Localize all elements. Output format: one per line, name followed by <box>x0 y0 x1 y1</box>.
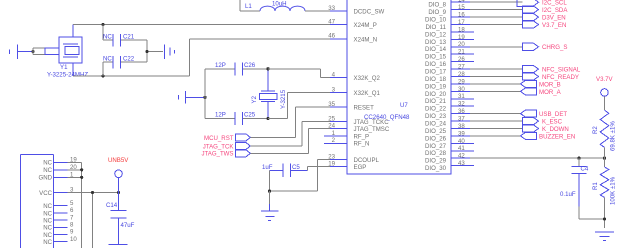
pin 30 DIO_20 <box>425 86 474 98</box>
pin 29 DIO_19 <box>425 78 474 90</box>
svg-text:X32K_Q1: X32K_Q1 <box>354 90 381 97</box>
svg-text:Y2: Y2 <box>251 95 258 103</box>
wire pin 27 to port NFC_SIGNAL <box>470 68 523 70</box>
node junction Y2 top <box>266 67 269 70</box>
svg-text:33: 33 <box>328 5 335 12</box>
svg-text:VCC: VCC <box>39 190 52 197</box>
svg-text:18: 18 <box>458 26 465 33</box>
svg-text:NFC_SIGNAL: NFC_SIGNAL <box>542 67 581 74</box>
svg-text:0.1uF: 0.1uF <box>560 191 576 198</box>
svg-text:RF_N: RF_N <box>354 141 370 148</box>
pin 6 NC (connector) <box>43 207 74 217</box>
svg-text:5: 5 <box>70 200 74 207</box>
connector J1 (bottom-left, partially cut) <box>21 155 54 248</box>
crystal Y2 <box>251 69 287 119</box>
svg-text:46: 46 <box>328 33 335 40</box>
wire pin 28 to port NFC_READY <box>470 76 523 78</box>
svg-text:DIO_12: DIO_12 <box>425 31 447 38</box>
svg-text:JTAG_TCKC: JTAG_TCKC <box>354 119 390 126</box>
pin 4 X32K_Q2 <box>330 71 381 82</box>
port flag MCU_RST <box>204 134 250 142</box>
svg-text:RESET: RESET <box>354 104 375 111</box>
node junction R2/R1 <box>603 157 606 160</box>
svg-text:16: 16 <box>458 12 465 19</box>
svg-text:41: 41 <box>458 145 465 152</box>
pin 42 DIO_29 <box>425 153 474 165</box>
pin 8 NC (connector) <box>43 222 74 232</box>
pin 33 DCDC_SW <box>328 5 384 16</box>
svg-text:DIO_21: DIO_21 <box>425 98 447 105</box>
wire C22 left bus <box>102 62 104 76</box>
svg-text:9: 9 <box>70 229 74 236</box>
svg-text:NC: NC <box>43 210 52 217</box>
svg-text:X24M_P: X24M_P <box>354 22 377 29</box>
svg-text:NC: NC <box>43 203 52 210</box>
wire JTAG_TCK to pin 25 <box>250 122 330 147</box>
svg-text:DIO_25: DIO_25 <box>425 128 447 135</box>
pin 1 RF_P <box>324 130 369 141</box>
svg-text:35: 35 <box>328 101 335 108</box>
port flag USB_DET <box>521 110 568 118</box>
pin 9 NC (connector) <box>43 229 74 239</box>
svg-text:38: 38 <box>458 123 465 130</box>
node junction VCC/bus B <box>91 191 94 194</box>
svg-text:RF_P: RF_P <box>354 133 370 140</box>
node junction R1 bottom / C4 <box>603 217 606 220</box>
port flag K_DOWN <box>523 125 569 133</box>
wire pin 16 to port D3V_EN <box>470 16 523 18</box>
svg-text:DIO_8: DIO_8 <box>428 2 446 9</box>
svg-text:DIO_27: DIO_27 <box>425 143 447 150</box>
svg-text:29: 29 <box>458 78 465 85</box>
power port V3.7V <box>596 76 614 110</box>
pin 41 DIO_28 <box>425 145 474 157</box>
svg-text:21: 21 <box>458 49 465 56</box>
crystal Y1 <box>33 31 88 79</box>
svg-text:6: 6 <box>70 207 74 214</box>
svg-text:Y-3215: Y-3215 <box>280 89 287 109</box>
svg-text:V3.7_EN: V3.7_EN <box>542 22 566 29</box>
pin 20 NC (connector) <box>43 164 77 174</box>
wire Y1 bottom lead to X24M_N <box>72 69 74 76</box>
wire X32K_Q2 to pin 4 <box>268 69 330 78</box>
svg-text:12P: 12P <box>215 112 226 119</box>
pin 17 DIO_11 <box>425 19 474 31</box>
wire pin 17 to port V3.7_EN <box>470 24 523 26</box>
svg-text:27: 27 <box>458 64 465 71</box>
svg-text:7: 7 <box>70 214 74 221</box>
svg-text:10: 10 <box>70 236 77 243</box>
svg-text:DIO_18: DIO_18 <box>425 76 447 83</box>
pin 27 DIO_17 <box>425 64 474 76</box>
port flag CHRG_S <box>523 43 568 51</box>
svg-text:C14: C14 <box>106 202 118 209</box>
wire X24M_P net (pin 47) <box>73 24 330 26</box>
svg-text:DIO_24: DIO_24 <box>425 121 447 128</box>
svg-text:K_DOWN: K_DOWN <box>542 126 569 133</box>
svg-text:32: 32 <box>458 101 465 108</box>
wire Y1 top lead to X24M_P <box>72 25 74 31</box>
svg-text:DIO_13: DIO_13 <box>425 39 447 46</box>
svg-text:DIO_20: DIO_20 <box>425 91 447 98</box>
node junction X24M_P / C21 <box>101 23 104 26</box>
pin 46 X24M_N <box>328 33 377 44</box>
pin 38 DIO_25 <box>425 123 474 135</box>
pin 16 DIO_10 <box>425 12 474 24</box>
svg-text:24: 24 <box>328 123 335 130</box>
wire pin 39 to port BUZZER_EN <box>470 135 521 137</box>
ground GND (right of C21/C22) <box>165 45 175 60</box>
pin 37 DIO_24 <box>425 116 474 128</box>
capacitor C26 12P <box>205 62 268 76</box>
svg-text:C22: C22 <box>123 56 135 63</box>
capacitor C5 1uF <box>262 164 308 178</box>
wire pin 38 to port K_DOWN <box>470 128 523 130</box>
port flag I2C_SCL <box>517 0 567 7</box>
svg-text:DIO_19: DIO_19 <box>425 83 447 90</box>
svg-text:C4: C4 <box>581 166 589 173</box>
pin 35 RESET <box>328 101 374 112</box>
svg-text:R2: R2 <box>592 126 599 134</box>
node X24M_GND junction at Y1 left lead <box>31 50 34 53</box>
wire pin 20 to port CHRG_S <box>470 46 523 48</box>
node junction X32K gnd bus <box>203 96 206 99</box>
svg-text:DIO_16: DIO_16 <box>425 61 447 68</box>
node junction pin1/bus <box>80 176 83 179</box>
svg-text:39: 39 <box>458 130 465 137</box>
pin 2 RF_N <box>324 137 369 148</box>
svg-text:69.8K ±1%: 69.8K ±1% <box>610 121 617 151</box>
pin 10 NC (connector) <box>43 236 77 246</box>
port flag NFC_READY <box>523 73 579 81</box>
wire X32K left bus <box>204 69 206 119</box>
port flag JTAG_TWS <box>201 150 250 158</box>
ground bar (below C14, cut) <box>109 243 128 245</box>
svg-text:19: 19 <box>458 34 465 41</box>
pin 19 NC (connector) <box>43 157 77 167</box>
node junction caps-gnd <box>145 50 148 53</box>
ground GND (X32K area) <box>179 91 206 104</box>
svg-text:28: 28 <box>458 71 465 78</box>
pin 14 DIO_8 <box>428 0 474 9</box>
pin 19 DIO_13 <box>425 34 474 46</box>
svg-text:36: 36 <box>458 108 465 115</box>
svg-text:DIO_11: DIO_11 <box>425 24 446 31</box>
svg-text:DIO_30: DIO_30 <box>425 165 447 172</box>
svg-text:26: 26 <box>458 56 465 63</box>
svg-text:NC: NC <box>103 56 112 63</box>
svg-text:GND: GND <box>38 175 52 182</box>
pin 39 DIO_26 <box>425 130 474 142</box>
power port UNB5V <box>108 157 129 193</box>
svg-text:DCDC_SW: DCDC_SW <box>354 8 385 15</box>
wire X32K_Q1 to pin 3 <box>268 93 330 119</box>
pin 15 DIO_9 <box>428 4 474 16</box>
svg-text:17: 17 <box>458 19 465 26</box>
pin 19 EGP <box>328 160 366 171</box>
svg-text:15: 15 <box>458 4 465 11</box>
pin 25 JTAG_TCKC <box>328 115 389 126</box>
svg-text:K_ESC: K_ESC <box>542 119 563 126</box>
svg-text:R1: R1 <box>592 182 599 190</box>
pin 21 DIO_15 <box>425 49 474 61</box>
svg-text:Y-3225-24MHZ: Y-3225-24MHZ <box>47 72 88 79</box>
pin 18 DIO_12 <box>425 26 474 38</box>
svg-text:40: 40 <box>458 138 465 145</box>
port flag JTAG_TCK <box>203 143 251 151</box>
wire C5 right to EGP pin 19 <box>308 167 331 171</box>
svg-text:47: 47 <box>328 18 335 25</box>
capacitor C21 (NC) <box>103 34 147 47</box>
node junction X24M_N / C22 <box>101 74 104 77</box>
node junction C5/gnd <box>268 190 271 193</box>
wire C5 left to gnd node <box>270 170 318 191</box>
svg-text:D3V_EN: D3V_EN <box>542 15 566 22</box>
pin 40 DIO_27 <box>425 138 474 150</box>
ground GND (below C5) <box>261 191 279 220</box>
pin 43 DIO_30 <box>425 160 474 172</box>
pin 20 DIO_14 <box>425 41 474 53</box>
wire right bus C21/C22 to gnd <box>147 40 163 62</box>
svg-text:DIO_9: DIO_9 <box>428 9 446 16</box>
svg-text:C26: C26 <box>244 62 256 69</box>
node junction Y2 bottom <box>266 117 269 120</box>
wire DCOUPL pin 23 down <box>318 160 331 192</box>
svg-text:NC: NC <box>43 239 52 246</box>
pin 32 DIO_22 <box>425 101 474 113</box>
capacitor C14 47uF <box>106 193 135 245</box>
pin 3 VCC (connector) <box>39 187 74 197</box>
node junction VCC/C14 <box>117 191 120 194</box>
svg-text:DIO_17: DIO_17 <box>425 69 447 76</box>
svg-text:C25: C25 <box>244 112 256 119</box>
resistor R1 100K <box>592 158 617 228</box>
wire JTAG_TWS to pin 24 <box>250 129 330 154</box>
svg-text:DIO_10: DIO_10 <box>425 17 447 24</box>
pin 1 GND (connector) <box>38 172 74 182</box>
capacitor C4 0.1uF <box>560 158 605 219</box>
svg-text:V3.7V: V3.7V <box>596 76 614 83</box>
svg-text:MCU_RST: MCU_RST <box>204 135 234 142</box>
ground GND (left of Y1) <box>10 45 34 60</box>
svg-text:DIO_26: DIO_26 <box>425 135 447 142</box>
svg-text:37: 37 <box>458 116 465 123</box>
inductor L1 10uH <box>240 0 330 11</box>
svg-text:43: 43 <box>458 160 465 167</box>
wire pin 29 to port MOR_B <box>470 83 521 85</box>
port flag BUZZER_EN <box>521 132 576 140</box>
svg-text:U7: U7 <box>400 102 408 109</box>
port flag NFC_SIGNAL <box>523 66 581 74</box>
svg-text:DIO_14: DIO_14 <box>425 46 447 53</box>
svg-text:BUZZER_EN: BUZZER_EN <box>539 133 575 140</box>
pin 23 DCOUPL <box>328 154 379 165</box>
pin 47 X24M_P <box>328 18 377 29</box>
svg-text:NC: NC <box>103 34 112 41</box>
svg-text:L1: L1 <box>245 3 252 10</box>
svg-text:X24M_N: X24M_N <box>354 36 378 43</box>
svg-text:NFC_READY: NFC_READY <box>542 74 579 81</box>
svg-text:19: 19 <box>328 160 335 167</box>
IC U7 CC2640_QFN48 <box>347 0 451 174</box>
wire X24M_N bottom run <box>73 39 330 76</box>
svg-text:NC: NC <box>43 160 52 167</box>
pin 28 DIO_18 <box>425 71 474 83</box>
svg-text:30: 30 <box>458 86 465 93</box>
wire MCU_RST to RESET pin 35 <box>250 107 330 137</box>
svg-text:NC: NC <box>43 232 52 239</box>
svg-text:100K ±1%: 100K ±1% <box>610 176 617 205</box>
svg-text:47uF: 47uF <box>121 222 135 229</box>
svg-text:I2C_SDA: I2C_SDA <box>542 7 568 14</box>
svg-text:12P: 12P <box>215 62 226 69</box>
svg-text:42: 42 <box>458 153 465 160</box>
wire pin 37 to port K_ESC <box>470 120 523 122</box>
port flag K_ESC <box>523 118 563 126</box>
svg-text:1uF: 1uF <box>262 164 273 171</box>
svg-text:NC: NC <box>43 225 52 232</box>
port flag D3V_EN <box>523 14 566 22</box>
svg-text:MOR_A: MOR_A <box>539 89 562 96</box>
port flag MOR_B <box>521 80 561 88</box>
wire VCC net <box>68 193 119 248</box>
svg-text:NC: NC <box>43 167 52 174</box>
capacitor C22 (NC) <box>103 56 147 69</box>
svg-text:CHRG_S: CHRG_S <box>542 44 567 51</box>
svg-text:I2C_SCL: I2C_SCL <box>542 0 567 7</box>
pin 31 DIO_21 <box>425 93 474 105</box>
svg-text:MOR_B: MOR_B <box>539 81 561 88</box>
ground GND (below R1) <box>595 232 614 241</box>
svg-text:USB_DET: USB_DET <box>539 111 567 118</box>
svg-text:C21: C21 <box>123 34 135 41</box>
wire pin 15 to port I2C_SDA <box>470 9 523 11</box>
wire C21 left bus <box>102 25 104 40</box>
wire connector pins 19/20/1 to bus <box>68 162 82 248</box>
svg-text:DIO_22: DIO_22 <box>425 106 447 113</box>
svg-text:JTAG_TCK: JTAG_TCK <box>203 143 234 150</box>
svg-text:31: 31 <box>458 93 465 100</box>
pin 36 DIO_23 <box>425 108 474 120</box>
svg-text:NC: NC <box>43 218 52 225</box>
svg-text:DIO_28: DIO_28 <box>425 150 447 157</box>
pin 7 NC (connector) <box>43 214 74 224</box>
node junction pin20/bus <box>80 168 83 171</box>
svg-text:C5: C5 <box>292 164 300 171</box>
svg-text:DIO_15: DIO_15 <box>425 54 447 61</box>
svg-text:25: 25 <box>328 115 335 122</box>
capacitor C25 12P <box>205 112 268 126</box>
pin 5 NC (connector) <box>43 200 74 210</box>
wire pin 36 to port USB_DET <box>470 113 521 115</box>
svg-text:20: 20 <box>458 41 465 48</box>
svg-text:JTAG_TMSC: JTAG_TMSC <box>354 126 390 133</box>
resistor R2 69.8K <box>592 110 617 158</box>
svg-text:DIO_29: DIO_29 <box>425 158 447 165</box>
svg-text:UNB5V: UNB5V <box>108 157 129 164</box>
svg-text:DIO_23: DIO_23 <box>425 113 447 120</box>
wire pin 42 battery sense net <box>470 157 605 159</box>
node junction C4 tap <box>577 157 580 160</box>
pin 26 DIO_16 <box>425 56 474 68</box>
port flag V3.7_EN <box>523 21 567 29</box>
wire pin 30 to port MOR_A <box>470 90 521 92</box>
svg-text:EGP: EGP <box>354 164 367 171</box>
wire pin 14 to port I2C_SCL <box>470 1 523 3</box>
svg-text:JTAG_TWS: JTAG_TWS <box>201 151 233 158</box>
port flag I2C_SDA <box>523 6 569 14</box>
pin 24 JTAG_TMSC <box>328 123 390 134</box>
svg-text:8: 8 <box>70 222 74 229</box>
svg-text:10uH: 10uH <box>272 1 287 8</box>
svg-text:X32K_Q2: X32K_Q2 <box>354 75 381 82</box>
pin 3 X32K_Q1 <box>330 86 381 97</box>
port flag MOR_A <box>521 88 562 96</box>
svg-text:Y1: Y1 <box>60 64 68 71</box>
